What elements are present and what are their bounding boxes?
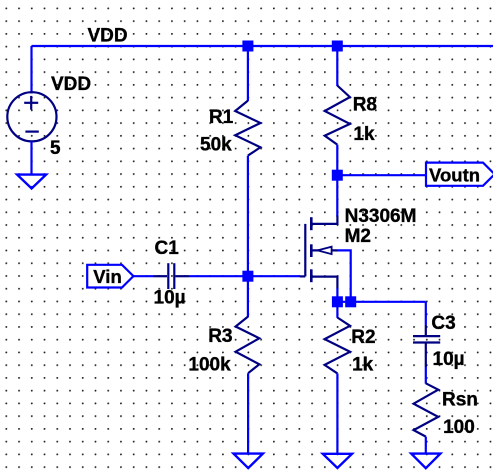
M2 bulk lead — [311, 249, 337, 251]
resistor R3 — [236, 317, 260, 374]
svg-text:VDD: VDD — [51, 74, 91, 95]
V1 minus sign — [25, 131, 38, 133]
wire C3 to Rsn — [425, 367, 427, 384]
M2 bulk channel bar — [310, 244, 313, 257]
capacitor C3 top lead navy — [425, 325, 427, 335]
ground symbol at Rsn — [411, 454, 440, 469]
svg-text:R2: R2 — [351, 327, 375, 348]
svg-text:VDD: VDD — [88, 26, 128, 47]
resistor R1 — [235, 101, 260, 156]
transistor M2 drain lead — [311, 216, 337, 224]
C3 top plate — [413, 335, 440, 337]
wire gate node to M2 gate — [248, 275, 300, 277]
resistor Rsn — [414, 383, 439, 436]
wire C3 top lead — [425, 302, 427, 325]
capacitor C3 bottom lead navy — [425, 344, 427, 368]
C1 right plate — [173, 263, 175, 289]
svg-text:R8: R8 — [353, 95, 377, 116]
ground symbol at V1 — [17, 175, 46, 189]
resistor R2 — [325, 318, 350, 374]
wire V1 to ground — [30, 141, 32, 174]
wire bulk to source node — [337, 250, 350, 301]
M2 gate poly line — [304, 224, 306, 277]
svg-text:Voutn: Voutn — [429, 165, 480, 186]
junction source node right — [345, 296, 356, 307]
svg-text:5: 5 — [50, 138, 61, 159]
svg-text:R3: R3 — [208, 326, 232, 347]
wire R8 top lead — [336, 46, 338, 86]
svg-text:1k: 1k — [352, 354, 374, 375]
svg-text:100k: 100k — [188, 354, 231, 375]
ground symbol at R3 — [234, 454, 263, 469]
svg-text:50k: 50k — [200, 134, 232, 155]
M2 source lead — [311, 277, 337, 289]
wire M2 source down — [336, 288, 338, 302]
input flag Vin — [87, 265, 133, 288]
junction at R8 top — [332, 41, 343, 52]
capacitor C1 left lead — [153, 275, 167, 277]
svg-text:M2: M2 — [345, 226, 371, 247]
C1 left plate — [167, 263, 169, 289]
svg-text:C1: C1 — [155, 238, 180, 259]
M2 gate lead stub — [300, 275, 306, 277]
svg-text:10µ: 10µ — [433, 349, 465, 370]
svg-text:10µ: 10µ — [154, 287, 186, 308]
ground symbol at R2 — [323, 454, 352, 468]
junction gate node — [242, 271, 253, 282]
svg-text:C3: C3 — [431, 313, 455, 334]
wire C1 to gate node — [189, 275, 248, 277]
resistor R8 — [325, 86, 350, 145]
wire V1 top — [30, 46, 32, 94]
wire source node to C3 — [337, 301, 425, 303]
V1 plus sign — [24, 96, 38, 110]
svg-text:Rsn: Rsn — [442, 390, 478, 411]
svg-text:1k: 1k — [353, 124, 375, 145]
wire R3 bottom — [247, 373, 249, 453]
wire R3 top lead — [247, 276, 249, 317]
M2 source channel bar — [310, 269, 313, 282]
junction source node left — [332, 296, 343, 307]
capacitor C1 right lead — [175, 275, 189, 277]
wire Rsn bottom — [425, 437, 427, 454]
wire R2 bottom — [336, 373, 338, 453]
svg-text:N3306M: N3306M — [345, 206, 417, 227]
svg-text:R1: R1 — [209, 107, 234, 128]
C3 bottom plate — [413, 341, 440, 343]
svg-text:Vin: Vin — [93, 266, 121, 287]
wire R1 top lead — [247, 46, 249, 101]
wire R1 bottom to gate node — [247, 156, 249, 277]
output flag Voutn — [426, 163, 493, 186]
wire R8 bottom to Voutn node — [336, 145, 338, 176]
junction at R1 top — [242, 41, 253, 52]
voltage source V1 circle — [7, 92, 56, 141]
wire Voutn node to flag — [337, 174, 426, 176]
wire R2 top lead — [336, 302, 338, 318]
M2 drain channel bar — [310, 217, 313, 230]
wire drain — [336, 175, 338, 216]
wire VDD top rail — [32, 45, 493, 47]
junction at Voutn node — [332, 170, 343, 181]
M2 bulk arrow — [318, 247, 332, 254]
svg-text:100: 100 — [443, 417, 475, 438]
wire Vin to C1 — [133, 275, 153, 277]
